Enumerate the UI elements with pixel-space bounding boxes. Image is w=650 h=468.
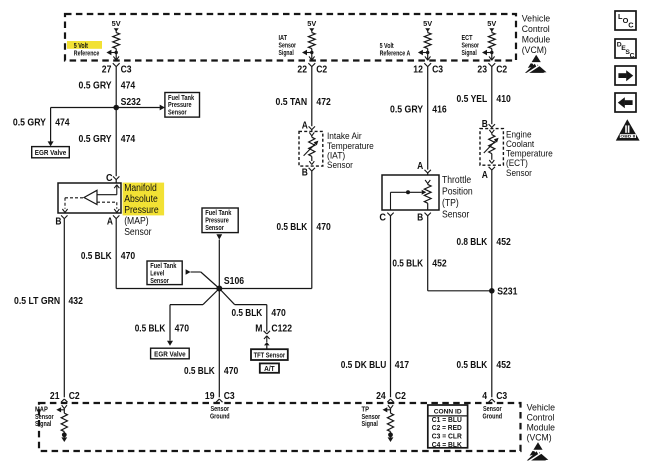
svg-text:(VCM): (VCM) <box>522 45 547 55</box>
svg-text:24: 24 <box>376 391 386 402</box>
svg-text:470: 470 <box>175 323 190 334</box>
svg-text:Position: Position <box>442 187 473 198</box>
svg-text:A: A <box>482 170 488 181</box>
svg-text:B: B <box>417 213 423 224</box>
svg-text:(MAP): (MAP) <box>124 216 148 227</box>
svg-text:5V: 5V <box>307 21 316 28</box>
svg-text:Intake Air: Intake Air <box>327 131 362 141</box>
svg-text:0.5 BLK: 0.5 BLK <box>81 251 112 262</box>
svg-text:Control: Control <box>522 24 550 34</box>
svg-text:Module: Module <box>522 35 550 45</box>
svg-text:C2: C2 <box>316 65 327 76</box>
svg-text:0.5 GRY: 0.5 GRY <box>79 134 112 145</box>
svg-text:5V: 5V <box>487 21 496 28</box>
svg-text:Throttle: Throttle <box>442 175 472 186</box>
svg-text:452: 452 <box>432 259 447 270</box>
svg-text:(TP): (TP) <box>442 198 459 209</box>
svg-text:B: B <box>55 217 61 228</box>
svg-text:Ground: Ground <box>210 413 230 420</box>
svg-text:0.5 GRY: 0.5 GRY <box>390 104 423 115</box>
svg-text:OBD II: OBD II <box>620 134 635 139</box>
svg-text:Level: Level <box>150 271 164 278</box>
svg-text:Reference: Reference <box>74 51 100 58</box>
svg-text:Sensor: Sensor <box>362 414 381 421</box>
svg-text:Sensor: Sensor <box>506 168 532 178</box>
svg-text:Ground: Ground <box>482 413 502 420</box>
svg-text:474: 474 <box>121 81 136 92</box>
svg-text:12: 12 <box>413 65 423 76</box>
svg-text:C122: C122 <box>271 324 292 335</box>
svg-text:A: A <box>302 121 308 132</box>
svg-text:452: 452 <box>496 360 511 371</box>
svg-text:(ECT): (ECT) <box>506 158 528 168</box>
svg-text:A/T: A/T <box>264 366 275 373</box>
svg-text:Signal: Signal <box>35 421 51 428</box>
svg-text:5V: 5V <box>423 21 432 28</box>
svg-text:Temperature: Temperature <box>327 141 374 151</box>
svg-text:M: M <box>255 324 262 335</box>
svg-text:CONN ID: CONN ID <box>434 409 462 416</box>
svg-text:A: A <box>107 217 113 228</box>
svg-text:EGR Valve: EGR Valve <box>154 351 186 358</box>
svg-text:410: 410 <box>496 94 511 105</box>
svg-text:MAP: MAP <box>35 407 48 414</box>
svg-text:Vehicle: Vehicle <box>527 402 555 412</box>
svg-text:C1 = BLU: C1 = BLU <box>432 417 462 424</box>
svg-text:0.5 BLK: 0.5 BLK <box>232 308 263 319</box>
svg-text:Sensor: Sensor <box>442 210 470 221</box>
svg-text:Signal: Signal <box>462 50 477 57</box>
svg-text:C: C <box>379 213 386 224</box>
svg-text:0.8 BLK: 0.8 BLK <box>457 237 488 248</box>
svg-text:Pressure: Pressure <box>205 218 229 225</box>
svg-text:417: 417 <box>395 360 410 371</box>
svg-text:Engine: Engine <box>506 129 532 139</box>
svg-text:Pressure: Pressure <box>124 205 159 216</box>
svg-text:TFT Sensor: TFT Sensor <box>254 352 286 359</box>
svg-text:416: 416 <box>432 104 447 115</box>
svg-text:0.5 GRY: 0.5 GRY <box>79 81 112 92</box>
svg-text:Signal: Signal <box>279 50 294 57</box>
svg-text:S232: S232 <box>121 97 142 108</box>
svg-text:C3: C3 <box>496 391 507 402</box>
svg-text:432: 432 <box>69 296 84 307</box>
svg-text:Manifold: Manifold <box>124 183 157 194</box>
svg-text:C3: C3 <box>121 65 132 76</box>
svg-text:S106: S106 <box>224 276 245 287</box>
svg-text:19: 19 <box>205 391 215 402</box>
svg-text:Signal: Signal <box>362 421 378 428</box>
svg-text:470: 470 <box>121 251 136 262</box>
svg-text:5 Volt: 5 Volt <box>74 43 89 50</box>
svg-text:C3: C3 <box>432 65 443 76</box>
svg-text:474: 474 <box>121 134 136 145</box>
svg-text:0.5 YEL: 0.5 YEL <box>457 94 488 105</box>
svg-text:Sensor: Sensor <box>483 406 502 413</box>
svg-text:Module: Module <box>527 423 555 433</box>
svg-text:0.5 LT GRN: 0.5 LT GRN <box>14 296 60 307</box>
svg-text:Sensor: Sensor <box>205 225 224 232</box>
svg-text:C2: C2 <box>496 65 507 76</box>
svg-text:Coolant: Coolant <box>506 139 535 149</box>
svg-text:0.5 GRY: 0.5 GRY <box>13 117 46 128</box>
svg-text:C: C <box>628 21 634 30</box>
svg-text:C4 = BLK: C4 = BLK <box>432 442 462 449</box>
svg-text:472: 472 <box>316 97 331 108</box>
svg-text:0.5 TAN: 0.5 TAN <box>276 97 308 108</box>
svg-text:Control: Control <box>527 413 555 423</box>
svg-text:EGR Valve: EGR Valve <box>35 150 67 157</box>
svg-text:C3: C3 <box>224 391 235 402</box>
svg-text:470: 470 <box>224 366 239 377</box>
svg-text:Pressure: Pressure <box>168 102 192 109</box>
svg-text:Fuel Tank: Fuel Tank <box>205 210 231 217</box>
svg-text:C2 = RED: C2 = RED <box>432 425 462 432</box>
svg-text:Sensor: Sensor <box>35 414 54 421</box>
svg-text:(IAT): (IAT) <box>327 150 345 160</box>
svg-text:474: 474 <box>55 117 70 128</box>
svg-text:Sensor: Sensor <box>462 43 480 50</box>
svg-text:S231: S231 <box>497 287 518 298</box>
svg-text:IAT: IAT <box>279 35 288 42</box>
svg-text:B: B <box>302 168 308 179</box>
svg-text:Sensor: Sensor <box>150 278 169 285</box>
svg-text:Sensor: Sensor <box>168 109 187 116</box>
svg-text:27: 27 <box>102 65 112 76</box>
svg-text:23: 23 <box>477 65 487 76</box>
svg-text:22: 22 <box>297 65 307 76</box>
svg-text:Sensor: Sensor <box>124 227 152 238</box>
svg-text:0.5 BLK: 0.5 BLK <box>184 366 215 377</box>
svg-text:C: C <box>630 52 635 59</box>
svg-text:TP: TP <box>362 407 370 414</box>
svg-text:452: 452 <box>496 237 511 248</box>
svg-text:4: 4 <box>482 391 487 402</box>
svg-text:0.5 DK BLU: 0.5 DK BLU <box>341 360 387 371</box>
svg-text:C2: C2 <box>69 391 80 402</box>
svg-text:21: 21 <box>50 391 60 402</box>
svg-text:Sensor: Sensor <box>210 406 229 413</box>
svg-text:Fuel Tank: Fuel Tank <box>168 95 194 102</box>
svg-text:5 Volt: 5 Volt <box>380 43 395 50</box>
svg-text:0.5 BLK: 0.5 BLK <box>135 323 166 334</box>
svg-text:0.5 BLK: 0.5 BLK <box>457 360 488 371</box>
svg-text:0.5 BLK: 0.5 BLK <box>277 222 308 233</box>
svg-text:0.5 BLK: 0.5 BLK <box>392 259 423 270</box>
svg-text:Sensor: Sensor <box>327 160 353 170</box>
svg-text:ECT: ECT <box>462 35 474 42</box>
svg-text:Sensor: Sensor <box>279 43 297 50</box>
svg-text:Temperature: Temperature <box>506 149 553 159</box>
svg-text:C2: C2 <box>395 391 406 402</box>
svg-text:470: 470 <box>271 308 286 319</box>
svg-text:Vehicle: Vehicle <box>522 13 550 23</box>
svg-text:470: 470 <box>316 222 331 233</box>
svg-text:5V: 5V <box>112 21 121 28</box>
svg-text:Fuel Tank: Fuel Tank <box>150 263 176 270</box>
svg-text:Absolute: Absolute <box>124 194 158 205</box>
svg-text:C3 = CLR: C3 = CLR <box>432 434 462 441</box>
svg-text:Reference A: Reference A <box>380 50 411 57</box>
svg-text:(VCM): (VCM) <box>527 433 552 443</box>
svg-text:A: A <box>417 161 423 172</box>
